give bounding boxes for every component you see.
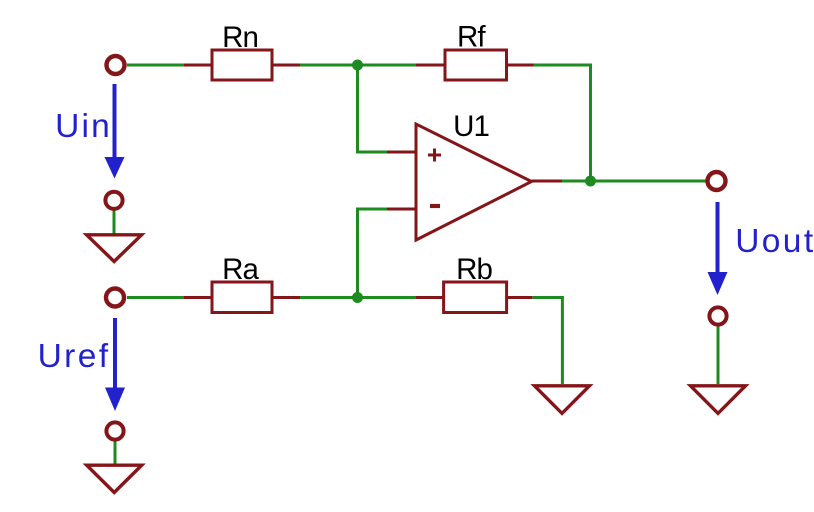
svg-text:Ra: Ra — [222, 253, 259, 286]
svg-text:Uref: Uref — [38, 338, 111, 375]
svg-text:Rn: Rn — [222, 21, 258, 54]
svg-text:Rf: Rf — [457, 21, 486, 54]
svg-text:U1: U1 — [453, 110, 489, 143]
svg-text:Uin: Uin — [55, 108, 112, 145]
svg-text:Uout: Uout — [735, 223, 814, 260]
svg-text:Rb: Rb — [456, 253, 492, 286]
